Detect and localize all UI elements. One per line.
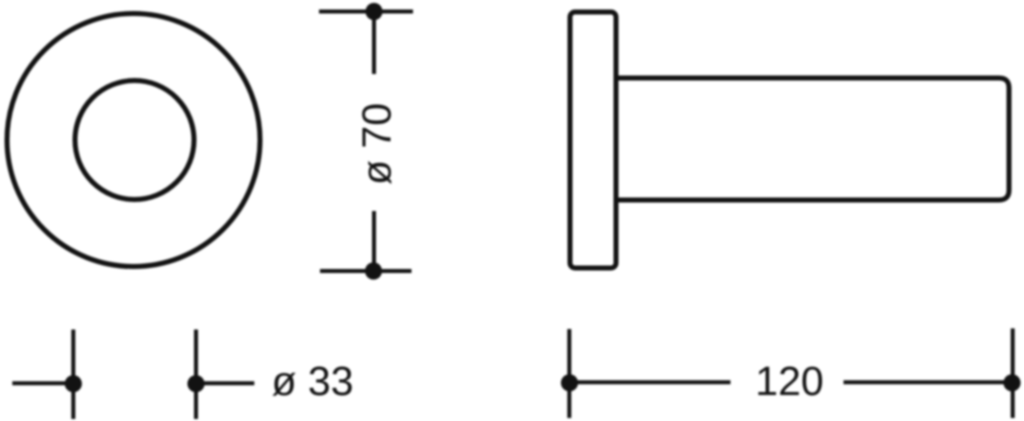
120 right extension line bbox=[1011, 328, 1015, 418]
ø33 left terminator dot bbox=[65, 375, 82, 392]
ø33 dimension line left segment bbox=[12, 381, 73, 385]
ø70 dimension line upper segment bbox=[372, 12, 376, 75]
svg-text:ø 70: ø 70 bbox=[354, 103, 400, 185]
ø70 bottom terminator dot bbox=[365, 262, 382, 279]
svg-text:ø 33: ø 33 bbox=[272, 358, 354, 404]
120 right terminator dot bbox=[1003, 374, 1020, 391]
120 left extension line bbox=[567, 329, 571, 418]
flange (side view wall plate) bbox=[570, 12, 616, 268]
rod (side view cylinder) bbox=[616, 78, 1009, 200]
120 dimension line right segment bbox=[844, 380, 1013, 384]
ø33 dimension line right segment bbox=[196, 381, 254, 385]
inner circle (front view, ø33) bbox=[75, 81, 194, 200]
ø70 top terminator dot bbox=[365, 3, 382, 20]
120 left terminator dot bbox=[561, 374, 578, 391]
ø70 dimension line lower segment bbox=[372, 211, 376, 271]
ø33 left extension line bbox=[71, 330, 75, 420]
120 dimension line left segment bbox=[569, 380, 730, 384]
svg-text:120: 120 bbox=[755, 358, 823, 404]
ø70 top extension line bbox=[319, 10, 413, 14]
label ø 70 (rotated) bbox=[354, 103, 400, 185]
ø33 right terminator dot bbox=[187, 375, 204, 392]
outer circle (front view, ø70) bbox=[7, 14, 260, 267]
ø33 right extension line bbox=[194, 330, 198, 420]
ø70 bottom extension line bbox=[320, 269, 412, 273]
